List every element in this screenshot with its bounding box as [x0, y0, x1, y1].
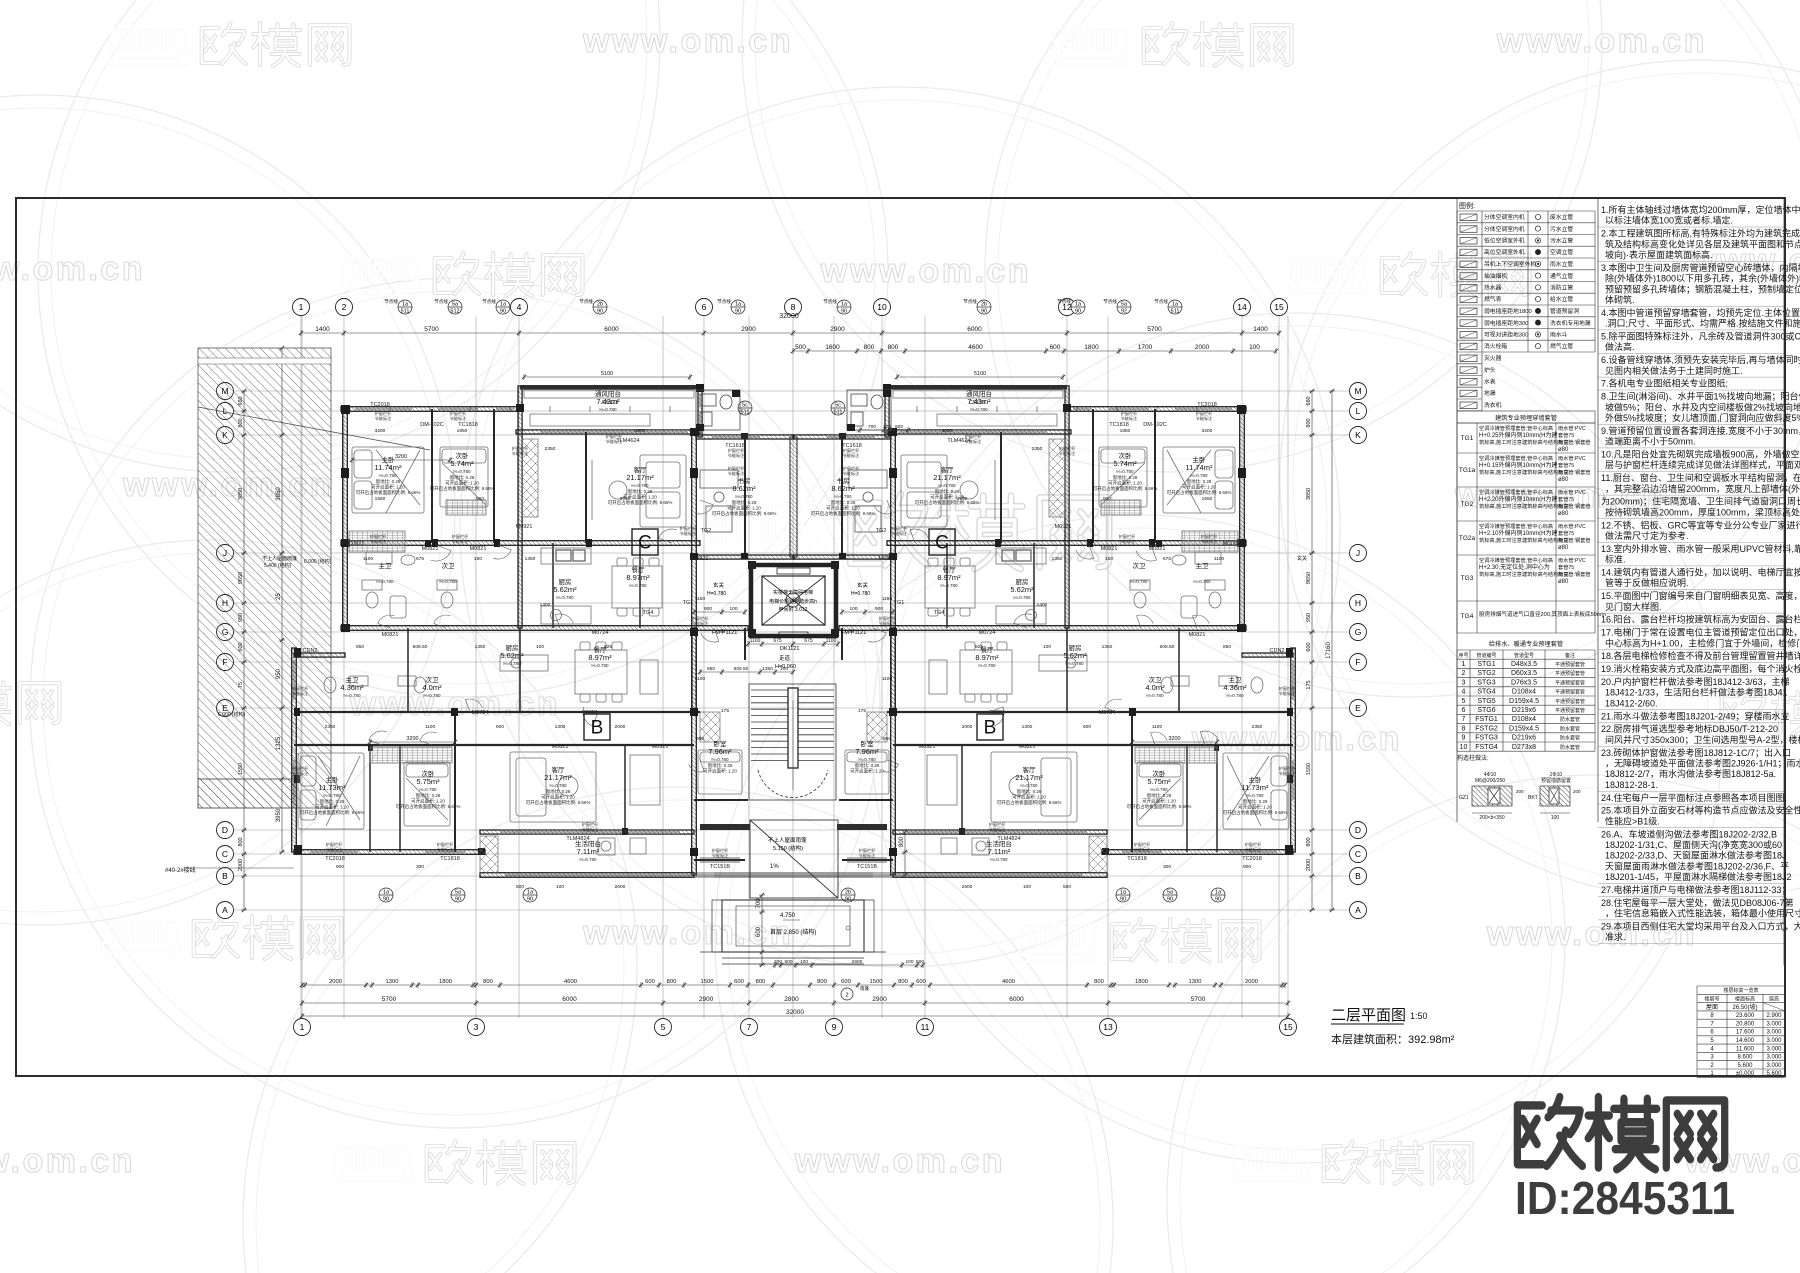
svg-text:防水套管: 防水套管 [1560, 735, 1580, 742]
svg-text:90: 90 [845, 897, 851, 903]
svg-text:节能标注: 节能标注 [859, 852, 877, 859]
svg-text:1550: 1550 [375, 496, 386, 502]
svg-text:5.600: 5.600 [1737, 1063, 1753, 1069]
svg-text:H=0.780: H=0.780 [735, 494, 753, 499]
svg-text:节能标注: 节能标注 [712, 852, 730, 859]
svg-text:H=0.780: H=0.780 [423, 693, 441, 698]
axis grid lines [234, 316, 1350, 1018]
opening codes [303, 400, 1285, 870]
svg-text:1100: 1100 [363, 556, 374, 562]
svg-text:2b: 2b [597, 302, 603, 308]
svg-text:23.砖砌体护窗做法参考图18J812-1C/7；出入口: 23.砖砌体护窗做法参考图18J812-1C/7；出入口 [1601, 747, 1791, 758]
svg-text:H+0.25外偏内侧10mm(H为建: H+0.25外偏内侧10mm(H为建 [1479, 431, 1558, 439]
svg-text:675: 675 [773, 638, 782, 644]
svg-text:900: 900 [704, 606, 712, 612]
svg-text:TC151B: TC151B [857, 864, 878, 870]
windows [355, 407, 412, 411]
svg-text:5700: 5700 [424, 326, 439, 333]
svg-text:H=0.780: H=0.780 [1146, 693, 1164, 698]
svg-text:www.om.cn: www.om.cn [0, 1142, 135, 1180]
svg-text:M0821: M0821 [382, 632, 399, 638]
svg-text:8.97m²: 8.97m² [975, 653, 999, 662]
svg-text:1350: 1350 [475, 644, 486, 650]
svg-text:11.厨台、窗台、卫生间和空调板水平结构留洞，在厨: 11.厨台、窗台、卫生间和空调板水平结构留洞，在厨 [1601, 472, 1800, 483]
svg-text:600: 600 [1050, 344, 1061, 351]
svg-text:雨水管:PVC: 雨水管:PVC [1558, 454, 1586, 462]
svg-text:7.96m²: 7.96m² [855, 747, 879, 756]
svg-text:分体空调室内机: 分体空调室内机 [1484, 213, 1525, 221]
svg-text:6000: 6000 [604, 326, 619, 333]
svg-text:90: 90 [841, 309, 847, 315]
svg-text:9650: 9650 [1306, 572, 1312, 584]
svg-text:600: 600 [734, 979, 744, 985]
svg-text:管等于反做相应说明.: 管等于反做相应说明. [1605, 577, 1689, 588]
svg-text:平通预留套管: 平通预留套管 [1555, 679, 1585, 686]
svg-text:节能标注: 节能标注 [375, 415, 393, 422]
svg-text:TG2: TG2 [701, 528, 712, 534]
svg-text:512: 512 [450, 309, 459, 315]
svg-text:可开启占地板面面积比例: 9.66%: 可开启占地板面面积比例: 9.66% [915, 499, 980, 506]
svg-text:100: 100 [556, 884, 564, 890]
svg-text:可开启占地板面面积比例: 9.66%: 可开启占地板面面积比例: 9.66% [811, 510, 876, 517]
svg-text:TG2: TG2 [876, 528, 887, 534]
svg-text:TG4: TG4 [934, 610, 945, 616]
svg-text:7.96m²: 7.96m² [708, 747, 732, 756]
svg-text:2000: 2000 [238, 859, 244, 871]
svg-text:M0921: M0921 [919, 744, 936, 750]
svg-text:3200: 3200 [1202, 428, 1213, 434]
svg-text:筑及结构标高变化处详见各层及建筑平面图和节点详图；: 筑及结构标高变化处详见各层及建筑平面图和节点详图； [1605, 238, 1800, 249]
svg-text:3.000: 3.000 [1766, 1063, 1782, 1069]
svg-text:H=0.780: H=0.780 [503, 661, 521, 666]
svg-text:雨立管:钢套管: 雨立管:钢套管 [1558, 536, 1591, 544]
svg-text:2.本工程建筑图所标高,有特殊标注外均为建筑完成面: 2.本工程建筑图所标高,有特殊标注外均为建筑完成面 [1601, 228, 1800, 239]
svg-text:1a: 1a [841, 302, 848, 308]
svg-text:3: 3 [1462, 679, 1466, 686]
svg-text:18J201-1/45，平屋面淋水隔梯做法参考图18J2: 18J201-1/45，平屋面淋水隔梯做法参考图18J2 [1605, 871, 1792, 882]
svg-text:20.户内护窗栏杆做法参考图18J412-3/63，主梯: 20.户内护窗栏杆做法参考图18J412-3/63，主梯 [1601, 676, 1790, 687]
svg-text:6000: 6000 [967, 326, 982, 333]
svg-text:18J412-1/33，生活阳台栏杆做法参考图18J41: 18J412-1/33，生活阳台栏杆做法参考图18J41 [1605, 687, 1788, 698]
svg-text:14: 14 [1237, 302, 1247, 312]
svg-text:可开启占地板面面积比例: 9.66%: 可开启占地板面面积比例: 9.66% [1093, 485, 1158, 492]
svg-text:1550: 1550 [1202, 496, 1213, 502]
svg-text:管道型号: 管道型号 [1514, 652, 1534, 659]
svg-text:2000: 2000 [1306, 859, 1312, 871]
svg-text:TLM4824: TLM4824 [997, 836, 1020, 842]
svg-text:FM甲1121: FM甲1121 [712, 629, 737, 636]
svg-text:950: 950 [696, 736, 704, 742]
svg-text:1850: 1850 [1120, 428, 1131, 434]
svg-text:备注: 备注 [1565, 652, 1575, 659]
svg-text:600: 600 [895, 424, 903, 430]
svg-text:筑标高,施工时注意建筑标高与结构标高: 筑标高,施工时注意建筑标高与结构标高 [1479, 570, 1569, 578]
svg-text:MC0821: MC0821 [344, 541, 365, 547]
svg-text:100: 100 [729, 606, 737, 612]
svg-text:套管75: 套管75 [1558, 431, 1574, 439]
hatched existing building [198, 348, 331, 808]
svg-text:7: 7 [747, 1022, 752, 1032]
svg-text:筑标高,施工时注意建筑标高与结构标高: 筑标高,施工时注意建筑标高与结构标高 [1479, 536, 1569, 544]
svg-text:800: 800 [888, 344, 899, 351]
svg-text:平通预留套管: 平通预留套管 [1555, 661, 1585, 668]
svg-text:M0724: M0724 [1099, 710, 1116, 716]
svg-text:1a: 1a [383, 890, 390, 896]
svg-text:节能标注: 节能标注 [1245, 846, 1263, 853]
svg-text:TC2018: TC2018 [1197, 402, 1217, 408]
svg-text:图例:: 图例: [1459, 201, 1475, 210]
svg-text:925: 925 [975, 644, 983, 650]
svg-text:5.74m²: 5.74m² [1113, 459, 1137, 468]
svg-text:3.本图中卫生间及厨房管道预留空心砖墙体，内隔墙为: 3.本图中卫生间及厨房管道预留空心砖墙体，内隔墙为 [1601, 262, 1800, 273]
svg-text:www.om.cn: www.om.cn [582, 22, 793, 60]
om.cn logo [1517, 1097, 1724, 1169]
svg-text:按待砌筑墙高200mm，厚度100mm，梁顶标高处须采: 按待砌筑墙高200mm，厚度100mm，梁顶标高处须采 [1605, 506, 1800, 517]
svg-text:600: 600 [841, 979, 851, 985]
svg-text:7: 7 [1462, 716, 1466, 723]
svg-text:608.50: 608.50 [413, 644, 428, 650]
svg-text:H=0.780: H=0.780 [707, 591, 726, 597]
svg-text:节点线: 节点线 [963, 298, 977, 305]
svg-text:序号: 序号 [1458, 652, 1468, 659]
svg-text:二层平面图: 二层平面图 [1331, 1007, 1406, 1024]
svg-text:STG2: STG2 [1477, 670, 1495, 677]
shaft xgrids [522, 439, 538, 517]
svg-text:废水立管: 废水立管 [1550, 213, 1573, 221]
svg-text:节能标注: 节能标注 [843, 470, 861, 477]
svg-text:8.62m²: 8.62m² [732, 484, 756, 493]
svg-text:11.73m²: 11.73m² [1242, 783, 1269, 792]
corner bath boxes [696, 390, 740, 430]
svg-text:B: B [1355, 871, 1361, 881]
svg-text:H=0.780: H=0.780 [556, 595, 574, 600]
svg-text:5.62m²: 5.62m² [553, 585, 577, 594]
svg-text:500: 500 [795, 344, 806, 351]
svg-text:见门窗大样图.: 见门窗大样图. [1605, 601, 1662, 612]
svg-text:H=0.780: H=0.780 [1193, 579, 1211, 584]
svg-text:1100: 1100 [425, 724, 436, 730]
svg-text:H=0.780: H=0.780 [379, 473, 397, 478]
svg-text:6: 6 [1462, 707, 1466, 714]
svg-text:坡做5%；阳台、水井及内空间楼板做2%找坡向地漏；屋: 坡做5%；阳台、水井及内空间楼板做2%找坡向地漏；屋 [1605, 401, 1800, 412]
svg-text:C: C [935, 533, 949, 554]
svg-text:FSTG4: FSTG4 [1475, 744, 1498, 751]
svg-text:除(外墙体外)1800以下用多孔砖，其余(外墙体外)H: 除(外墙体外)1800以下用多孔砖，其余(外墙体外)H [1605, 273, 1800, 284]
svg-text:节点线: 节点线 [482, 298, 496, 305]
svg-text:2350: 2350 [1252, 724, 1263, 730]
svg-text:H=0.780: H=0.780 [1150, 787, 1168, 792]
svg-text:90: 90 [500, 309, 506, 315]
svg-text:节点线: 节点线 [1154, 298, 1168, 305]
svg-text:可开启占地板面面积比例: 9.66%: 可开启占地板面面积比例: 9.66% [997, 799, 1062, 806]
svg-text:可开启占地板面面积比例: 9.66%: 可开启占地板面面积比例: 9.66% [712, 510, 777, 517]
svg-text:5700: 5700 [382, 996, 397, 1003]
svg-text:做法高.: 做法高. [1605, 341, 1635, 352]
svg-text:1400: 1400 [540, 602, 551, 608]
svg-text:150: 150 [1105, 556, 1113, 562]
svg-text:节能标注: 节能标注 [692, 620, 710, 627]
svg-text:不上人屋面雨篷: 不上人屋面雨篷 [768, 836, 807, 844]
svg-text:12.不锈、铝板、GRC等宜等专业分公专业厂家进行二: 12.不锈、铝板、GRC等宜等专业分公专业厂家进行二 [1601, 519, 1800, 530]
svg-text:节能标注: 节能标注 [606, 438, 624, 445]
svg-text:C: C [638, 533, 652, 554]
svg-text:空调冷媒管预埋套管,管中心标高: 空调冷媒管预埋套管,管中心标高 [1479, 454, 1553, 462]
svg-text:H=0.780: H=0.780 [1130, 579, 1148, 584]
svg-text:M0821: M0821 [422, 546, 439, 552]
svg-text:100: 100 [883, 424, 891, 430]
svg-text:节能标注: 节能标注 [437, 846, 455, 853]
svg-text:体砌筑.: 体砌筑. [1605, 294, 1635, 305]
svg-text:H=0.780: H=0.780 [629, 583, 647, 588]
svg-text:M0921: M0921 [692, 556, 709, 562]
svg-text:雨立管:钢套管: 雨立管:钢套管 [1558, 438, 1591, 446]
svg-text:3200: 3200 [406, 736, 418, 742]
svg-text:5: 5 [1462, 698, 1466, 705]
svg-text:4: 4 [1462, 689, 1466, 696]
svg-text:150: 150 [474, 556, 482, 562]
svg-text:M0921: M0921 [652, 744, 669, 750]
svg-text:首层 2.850 (结构): 首层 2.850 (结构) [770, 928, 816, 936]
svg-text:可开启占地板面面积比例: 9.66%: 可开启占地板面面积比例: 9.66% [608, 499, 673, 506]
left/right dim chains [241, 389, 247, 912]
svg-text:筑标高,施工时注意建筑标高与结构标高: 筑标高,施工时注意建筑标高与结构标高 [1479, 468, 1569, 476]
svg-text:雨蓬: 雨蓬 [860, 985, 869, 992]
svg-text:1:50: 1:50 [1410, 1011, 1428, 1021]
svg-text:燃气表: 燃气表 [1484, 295, 1502, 303]
svg-text:2900: 2900 [699, 996, 714, 1003]
svg-text:H=0.780: H=0.780 [549, 783, 567, 788]
svg-text:3200: 3200 [395, 454, 407, 460]
svg-text:H=0.780: H=0.780 [1020, 783, 1038, 788]
svg-text:800: 800 [238, 837, 244, 846]
svg-text:B: B [984, 718, 997, 739]
svg-text:FSTG2: FSTG2 [1475, 725, 1498, 732]
svg-text:90: 90 [1167, 897, 1173, 903]
svg-text:节能标注: 节能标注 [728, 470, 746, 477]
svg-text:100: 100 [1551, 815, 1560, 821]
svg-text:5.75m²: 5.75m² [416, 777, 440, 786]
svg-text:可开启占地板面面积比例: 9.66%: 可开启占地板面面积比例: 9.66% [430, 485, 495, 492]
svg-text:准求.: 准求. [1605, 931, 1626, 942]
svg-text:675: 675 [1163, 556, 1171, 562]
svg-text:1100: 1100 [1152, 724, 1163, 730]
svg-text:J: J [1356, 548, 1360, 558]
svg-text:主卫: 主卫 [379, 561, 393, 570]
svg-text:5a: 5a [455, 890, 462, 896]
svg-text:8.97m²: 8.97m² [588, 653, 612, 662]
svg-text:.洞口;尺寸、平面形式、均需严格.按结施文件和施工: .洞口;尺寸、平面形式、均需严格.按结施文件和施工 [1605, 318, 1800, 329]
svg-text:900: 900 [875, 606, 883, 612]
svg-text:平通预留套管: 平通预留套管 [1555, 689, 1585, 696]
svg-text:18J812-28-1.: 18J812-28-1. [1605, 780, 1658, 790]
svg-text:5.62m²: 5.62m² [1010, 585, 1034, 594]
svg-text:1100: 1100 [750, 638, 761, 644]
svg-text:TC151B: TC151B [710, 864, 731, 870]
svg-text:6.000 (结构): 6.000 (结构) [218, 711, 246, 718]
svg-text:1600: 1600 [825, 344, 840, 351]
svg-text:以标注墙体宽100宽或者标.墙定.: 以标注墙体宽100宽或者标.墙定. [1605, 215, 1733, 226]
svg-text:GZ1: GZ1 [1459, 795, 1469, 801]
svg-text:1850: 1850 [457, 428, 468, 434]
svg-text:800: 800 [864, 344, 875, 351]
svg-text:D108x4: D108x4 [1512, 689, 1536, 696]
svg-text:3200: 3200 [1168, 736, 1180, 742]
svg-text:800: 800 [1306, 837, 1312, 846]
svg-text:雨水管:PVC: 雨水管:PVC [1558, 556, 1586, 564]
svg-text:1a: 1a [1075, 302, 1082, 308]
svg-text:M0821: M0821 [552, 744, 569, 750]
svg-text:MC0821: MC0821 [1223, 541, 1244, 547]
watermarks [109, 23, 350, 66]
svg-text:511: 511 [1171, 309, 1180, 315]
svg-text:套管75: 套管75 [1558, 495, 1574, 503]
svg-text:分体空调室内机: 分体空调室内机 [1484, 225, 1525, 233]
bottom dimension chains [300, 982, 1287, 988]
svg-text:850: 850 [1223, 644, 1231, 650]
svg-text:D219x6: D219x6 [1512, 735, 1536, 742]
svg-text:4.36m²: 4.36m² [1223, 683, 1247, 692]
svg-text:D219x6: D219x6 [1512, 707, 1536, 714]
svg-text:700: 700 [756, 898, 762, 909]
svg-text:6000: 6000 [562, 996, 577, 1003]
svg-text:5.除平面图特殊标注外，凡余砖及管道洞件300或C2: 5.除平面图特殊标注外，凡余砖及管道洞件300或C2 [1601, 331, 1800, 342]
svg-text:2: 2 [845, 993, 848, 999]
svg-text:900: 900 [1103, 496, 1111, 502]
svg-text:90: 90 [383, 897, 389, 903]
svg-text:800: 800 [667, 979, 677, 985]
svg-text:节能标注: 节能标注 [891, 530, 909, 537]
svg-text:FSTG1: FSTG1 [1475, 716, 1498, 723]
svg-text:雨水管:PVC: 雨水管:PVC [1558, 522, 1586, 530]
svg-text:B: B [222, 871, 228, 881]
svg-text:1350: 1350 [1052, 556, 1063, 562]
svg-text:675: 675 [804, 638, 813, 644]
svg-text:900: 900 [1243, 864, 1251, 870]
svg-text:D48x3.5: D48x3.5 [1511, 661, 1537, 668]
svg-text:雨水立管: 雨水立管 [1550, 260, 1573, 268]
svg-text:#40-2#楼线: #40-2#楼线 [165, 866, 196, 874]
svg-text:节能标注: 节能标注 [879, 620, 897, 627]
svg-text:600: 600 [1083, 724, 1091, 730]
canopy under stairs [700, 820, 886, 952]
doors [431, 545, 452, 561]
svg-text:H=0.780: H=0.780 [591, 663, 609, 668]
svg-text:节能标注: 节能标注 [292, 690, 310, 697]
svg-text:管道预留洞: 管道预留洞 [1550, 307, 1579, 315]
svg-text:STG1: STG1 [1477, 661, 1495, 668]
svg-text:1a: 1a [735, 302, 742, 308]
svg-text:DM-102C: DM-102C [1143, 422, 1167, 428]
svg-text:筑标高,施工时注意建筑标高与结构标高: 筑标高,施工时注意建筑标高与结构标高 [1479, 438, 1569, 446]
svg-text:5a: 5a [1121, 302, 1128, 308]
svg-text:7.11m²: 7.11m² [988, 847, 1011, 856]
svg-text:可开启占地板面面积比例: 9.66%: 可开启占地板面面积比例: 9.66% [1127, 803, 1192, 810]
svg-text:22.厨房排气道选型参考地标DBJ50/T-212-20: 22.厨房排气道选型参考地标DBJ50/T-212-20 [1601, 723, 1778, 734]
letter bubbles [217, 383, 1367, 919]
svg-text:构造柱做法:: 构造柱做法: [1457, 754, 1489, 762]
svg-text:1a: 1a [402, 302, 409, 308]
svg-text:100: 100 [1023, 884, 1031, 890]
svg-text:H=0.780: H=0.780 [453, 469, 471, 474]
svg-text:850: 850 [356, 644, 364, 650]
svg-text:1550: 1550 [1306, 763, 1312, 775]
svg-text:M0724: M0724 [592, 630, 609, 636]
svg-text:H+0.15外偏内侧10mm(H为建: H+0.15外偏内侧10mm(H为建 [1479, 461, 1558, 469]
svg-text:节能标注: 节能标注 [1279, 690, 1297, 697]
svg-text:6.000 (结构): 6.000 (结构) [304, 558, 332, 565]
svg-text:节能标注: 节能标注 [843, 452, 861, 459]
svg-text:1500: 1500 [870, 979, 883, 985]
svg-text:TC2018: TC2018 [370, 402, 390, 408]
svg-text:套管75: 套管75 [1558, 529, 1574, 537]
svg-text:32000: 32000 [786, 1009, 804, 1016]
svg-text:600: 600 [496, 724, 504, 730]
svg-text:节能标注: 节能标注 [326, 846, 344, 853]
svg-text:5.600: 5.600 [1766, 1071, 1782, 1077]
svg-text:608.50: 608.50 [734, 666, 749, 672]
svg-text:2000: 2000 [615, 724, 626, 730]
svg-text:26.A、车坡道侧沟做法参考图18J202-2/32,B: 26.A、车坡道侧沟做法参考图18J202-2/32,B [1601, 828, 1777, 839]
svg-text:消火栓箱: 消火栓箱 [1484, 342, 1507, 350]
svg-text:1%: 1% [770, 864, 779, 870]
svg-text:1100: 1100 [826, 638, 837, 644]
svg-text:1: 1 [300, 1022, 305, 1032]
svg-text:32000: 32000 [779, 313, 799, 320]
svg-text:层与护窗栏杆连续完成详见做法详图样式，平面双管距空: 层与护窗栏杆连续完成详见做法详图样式，平面双管距空 [1605, 459, 1800, 470]
svg-text:4: 4 [517, 302, 522, 312]
svg-text:TC2018: TC2018 [1242, 856, 1262, 862]
svg-text:950: 950 [1306, 613, 1312, 622]
svg-text:29.本项目西侧住宅大堂均采用平台及入口方式，大堂: 29.本项目西侧住宅大堂均采用平台及入口方式，大堂 [1601, 921, 1800, 932]
svg-text:见图内相关做法务于土建同时施工.: 见图内相关做法务于土建同时施工. [1605, 365, 1743, 376]
svg-text:楼层标高一览表: 楼层标高一览表 [1723, 987, 1758, 994]
svg-text:3.000: 3.000 [1766, 1046, 1782, 1052]
svg-text:M: M [1354, 386, 1361, 396]
svg-text:14.建筑内有管道人通行处，加以说明、电梯厅宜按管: 14.建筑内有管道人通行处，加以说明、电梯厅宜按管 [1601, 567, 1800, 578]
svg-text:90: 90 [1215, 897, 1221, 903]
svg-text:21.雨水斗做法参考图18J201-2/49；穿楼雨水立: 21.雨水斗做法参考图18J201-2/49；穿楼雨水立 [1601, 710, 1790, 721]
svg-text:600: 600 [645, 979, 655, 985]
svg-text:700: 700 [868, 424, 876, 430]
svg-text:7.11m²: 7.11m² [577, 847, 600, 856]
svg-text:175: 175 [1306, 680, 1312, 689]
svg-text:D: D [1355, 825, 1361, 835]
svg-text:H=0.780: H=0.780 [938, 483, 956, 488]
svg-text:空调冷媒管预埋套管,管中心标高: 空调冷媒管预埋套管,管中心标高 [1479, 424, 1553, 432]
svg-text:FM甲1121: FM甲1121 [841, 629, 866, 636]
plan walls [292, 386, 1296, 877]
svg-text:空调立管: 空调立管 [1550, 248, 1573, 256]
svg-text:21.17m²: 21.17m² [626, 473, 654, 482]
svg-text:可开启占地板面面积比例: 9.66%: 可开启占地板面面积比例: 9.66% [356, 489, 421, 496]
svg-text:1400: 1400 [1037, 602, 1048, 608]
svg-text:玄关: 玄关 [1297, 555, 1307, 562]
svg-text:90: 90 [981, 309, 987, 315]
svg-text:雨立管:钢套管: 雨立管:钢套管 [1558, 570, 1591, 578]
svg-text:4.36m²: 4.36m² [340, 683, 364, 692]
svg-text:TG2a: TG2a [1459, 535, 1476, 542]
svg-text:1500: 1500 [701, 979, 714, 985]
svg-text:M0821: M0821 [1101, 546, 1118, 552]
svg-text:节能标注: 节能标注 [370, 538, 388, 545]
svg-text:建筑专业预埋穿墙套管: 建筑专业预埋穿墙套管 [1495, 414, 1557, 422]
svg-text:中心标高为H+1.00，主检修门宜于外墙间，检修门高: 中心标高为H+1.00，主检修门宜于外墙间，检修门高 [1605, 637, 1800, 648]
svg-text:6.设备管线穿墙体,须预先安装完毕后,再与墙体同时封: 6.设备管线穿墙体,须预先安装完毕后,再与墙体同时封 [1601, 354, 1800, 365]
svg-text:A: A [1355, 905, 1361, 915]
svg-text:15.平面图中门窗编号来自门窗明细表见宽、高度，洞: 15.平面图中门窗编号来自门窗明细表见宽、高度，洞 [1601, 590, 1800, 601]
svg-text:可开启占地板面面积比例: 9.66%: 可开启占地板面面积比例: 9.66% [396, 803, 461, 810]
svg-text:900: 900 [476, 496, 484, 502]
